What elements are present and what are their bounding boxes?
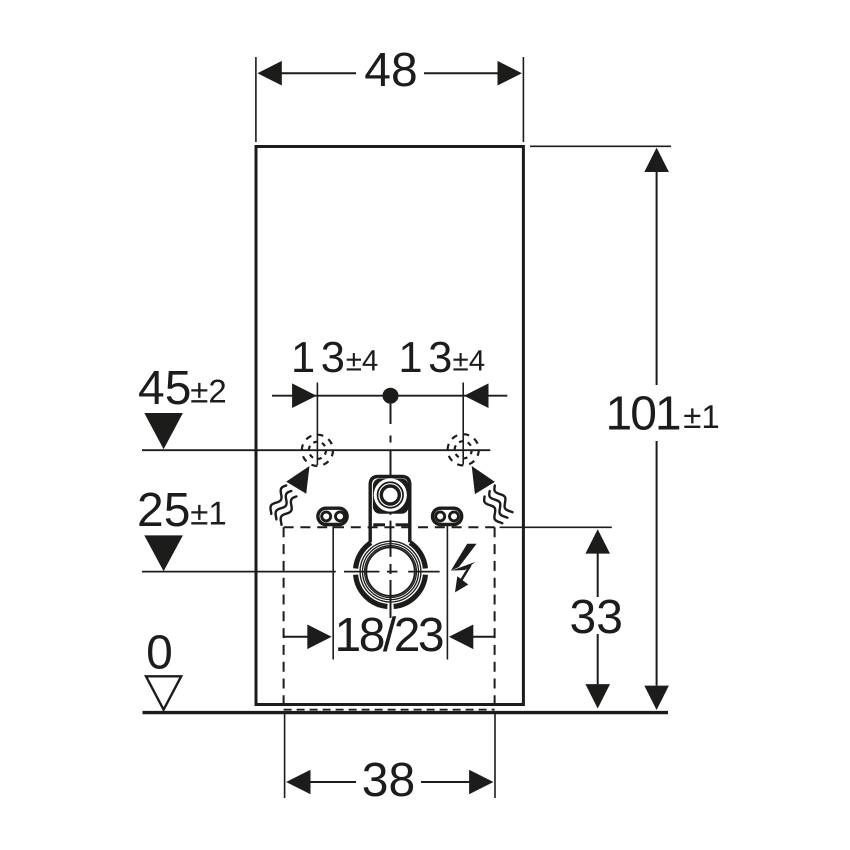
svg-text:38: 38: [362, 754, 415, 807]
svg-text:25: 25: [137, 484, 190, 537]
svg-text:±1: ±1: [683, 398, 719, 435]
svg-text:18/23: 18/23: [335, 609, 443, 662]
svg-text:±1: ±1: [190, 495, 226, 532]
svg-text:0: 0: [146, 627, 173, 680]
svg-text:48: 48: [364, 44, 417, 97]
svg-text:±2: ±2: [190, 373, 226, 410]
svg-text:13: 13: [291, 334, 350, 382]
svg-text:33: 33: [570, 591, 623, 644]
svg-text:101: 101: [606, 388, 680, 441]
svg-text:±4: ±4: [453, 345, 486, 378]
svg-text:45: 45: [138, 362, 191, 415]
svg-text:13: 13: [398, 334, 457, 382]
svg-text:±4: ±4: [346, 345, 379, 378]
